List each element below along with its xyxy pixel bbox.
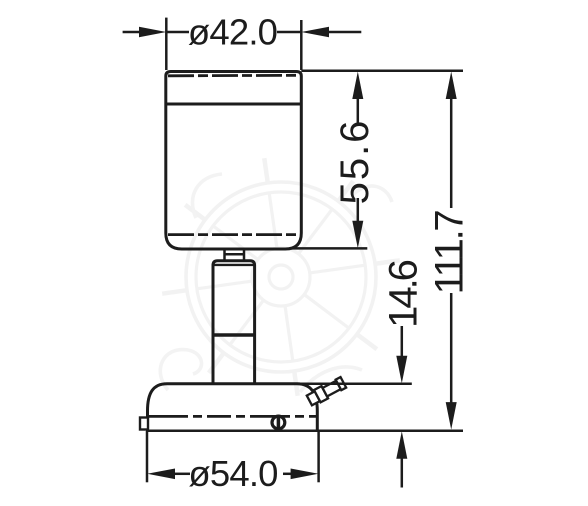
svg-text:ø54.0: ø54.0 (188, 453, 277, 494)
svg-text:14.6: 14.6 (382, 260, 426, 328)
svg-text:111.7: 111.7 (428, 211, 472, 295)
svg-text:ø42.0: ø42.0 (188, 12, 277, 53)
svg-text:55.6: 55.6 (333, 119, 377, 205)
